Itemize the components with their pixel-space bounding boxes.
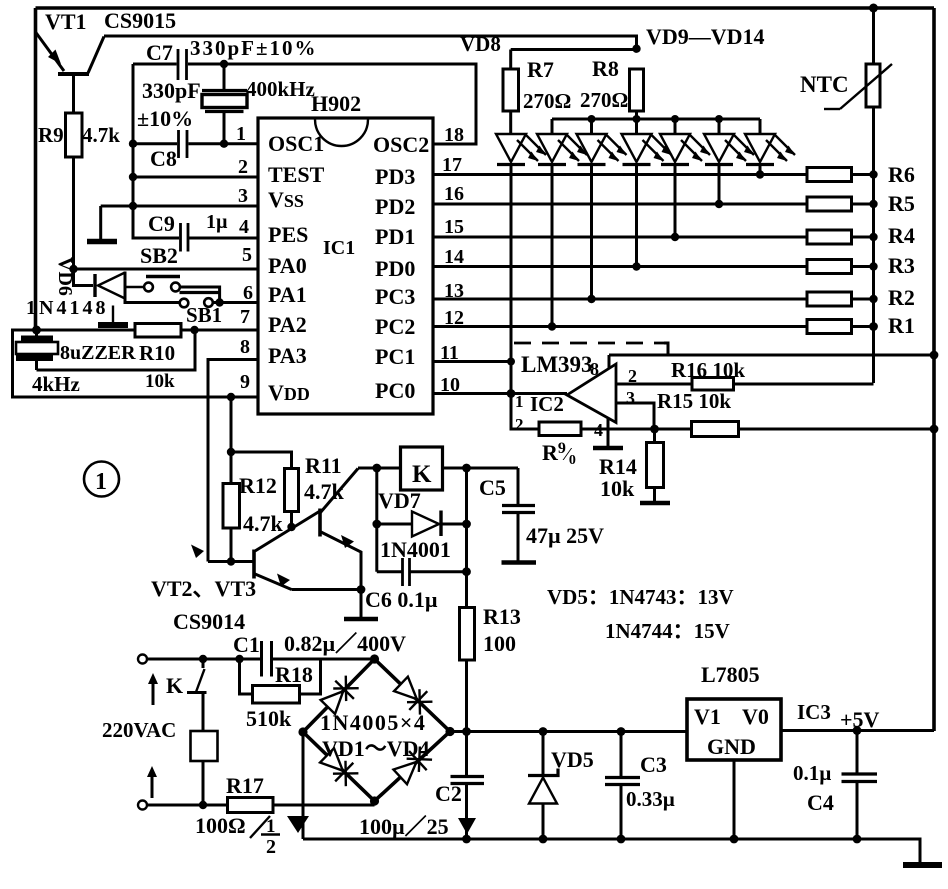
wire ground rail [303,839,920,863]
capacitor C6 0.1u [377,558,467,586]
LED VD11 [622,119,672,271]
svg-text:C9: C9 [148,211,175,236]
svg-text:V0: V0 [742,704,769,729]
svg-text:510k: 510k [246,706,292,731]
svg-text:C6 0.1µ: C6 0.1µ [365,587,438,612]
svg-text:R7: R7 [527,57,554,82]
svg-text:2: 2 [238,156,248,178]
svg-text:1µ: 1µ [206,211,228,233]
svg-text:PA3: PA3 [268,343,307,368]
svg-text:R12: R12 [239,473,277,498]
node left border/buzzer [32,326,41,335]
node R10 right [190,326,198,334]
wire pin8 PA3 to VT2 base [208,360,258,562]
svg-text:270Ω: 270Ω [580,88,628,112]
wire pin7 PA2 with R10 [37,329,136,332]
svg-text:PA0: PA0 [268,253,307,278]
svg-text:R10: R10 [139,341,175,365]
svg-text:10: 10 [440,374,460,396]
wire R7 top [511,48,637,51]
svg-text:+5V: +5V [840,707,880,732]
wire right border +5V [932,8,936,731]
svg-text:2: 2 [266,836,276,858]
svg-text:VD6: VD6 [54,257,76,296]
svg-text:NTC: NTC [800,72,849,97]
wire R9 to pin5 [72,157,75,269]
svg-text:VT2、VT3: VT2、VT3 [151,576,256,601]
svg-text:VDD: VDD [268,380,310,405]
resistor R2 [807,292,852,306]
node pin9/R12 column [227,393,235,401]
svg-text:PA1: PA1 [268,282,307,307]
capacitor C3 0.33u [605,732,640,840]
wire pin13 PC3 [433,298,807,301]
wire pin6 PA1 [213,301,258,304]
svg-text:R15 10k: R15 10k [657,389,731,413]
ground main [903,862,942,868]
svg-text:R6: R6 [888,162,915,187]
wire OSC2 loop top [133,63,177,66]
svg-text:4.7k: 4.7k [304,479,345,504]
svg-text:14: 14 [444,246,464,268]
wire pin3 VSS [101,205,258,208]
wire IC2 pin2 input / R16 [616,383,692,386]
svg-text:100µ／25: 100µ／25 [359,814,449,839]
svg-text:K: K [166,673,183,698]
svg-text:330pF±10%: 330pF±10% [190,36,318,60]
svg-text:CS9015: CS9015 [104,8,176,33]
resistor R13 100 [460,608,475,661]
resistor R4 [807,230,852,244]
svg-text:1N4148: 1N4148 [26,297,108,319]
arrow AC bottom [151,773,154,798]
resistor R% [539,422,581,436]
svg-text:11: 11 [440,342,459,364]
svg-text:330pF: 330pF [142,78,201,103]
svg-text:R18: R18 [275,662,313,687]
transistor VT2 [254,511,361,590]
diode VD2 top-right [392,675,435,718]
IC1 H902 [258,118,433,414]
resistor R3 [807,260,852,274]
svg-text:C4: C4 [807,790,834,815]
wire L7805 GND pin [733,760,736,839]
resistor R8 270 [630,69,644,111]
ground VSS [87,206,117,242]
svg-text:PC2: PC2 [375,314,415,339]
node pin11 corner [507,358,515,366]
svg-text:SB1: SB1 [186,303,222,327]
wire VDD branch to R11/R12 [230,397,233,452]
crystal 400kHz [202,64,247,144]
svg-text:R17: R17 [226,773,264,798]
node R9/pin5 [69,265,77,273]
svg-text:C8: C8 [150,146,177,171]
capacitor C2 100u [451,732,485,840]
pushbutton SB1 [180,293,220,308]
wire +5V output [781,729,934,732]
wire IC2 pin4 [607,418,610,448]
svg-text:R16 10k: R16 10k [671,358,745,382]
LED VD10 [577,119,627,303]
wire VD7 left column [375,468,378,572]
thermistor NTC [824,64,892,109]
wire pin15 PD1 [433,236,807,239]
svg-text:OSC2: OSC2 [373,132,429,157]
wire pin2 TEST [133,176,258,179]
wire buzzer bottom to R10 right [37,330,196,370]
wire K right [443,467,519,470]
svg-text:12: 12 [444,307,464,329]
svg-text:R3: R3 [888,253,915,278]
op-amp IC2 LM393 dashed outline [514,342,664,345]
svg-text:GND: GND [707,734,756,759]
wire plus rail [450,730,687,733]
resistor R9 [66,113,83,157]
svg-text:1N4001: 1N4001 [380,537,451,562]
svg-text:CS9014: CS9014 [173,609,245,634]
wire IC2 pin3 input [616,403,654,429]
node NTC top junction [869,4,878,13]
svg-text:4.7k: 4.7k [243,511,284,536]
svg-text:3: 3 [238,185,248,207]
wire pin9 VDD outer loop [13,330,259,397]
LED VD8 [496,111,546,394]
svg-text:PD0: PD0 [375,256,415,281]
svg-text:IC3: IC3 [797,700,831,724]
svg-text:270Ω: 270Ω [523,89,571,113]
svg-text:2: 2 [628,366,637,386]
resistor R12 4.7k [230,452,233,484]
wire VT1 collector line [104,36,637,49]
svg-text:PC1: PC1 [375,344,415,369]
svg-text:IC1: IC1 [323,237,355,259]
wire top +5V border [36,6,935,10]
svg-text:R13: R13 [483,604,521,629]
svg-text:1N4744：15V: 1N4744：15V [605,619,730,643]
svg-text:8: 8 [590,359,599,379]
svg-text:16: 16 [444,183,464,205]
wire bridge minus column [302,732,305,839]
wire VT2 base [208,560,254,563]
svg-text:VD5：1N4743：13V: VD5：1N4743：13V [547,585,734,609]
diode VD7 1N4001 [377,511,467,537]
wire pin10 PC0 / IC2 output [433,392,567,395]
wire pin1 OSC1 [133,142,177,145]
svg-text:VD8: VD8 [460,32,501,56]
svg-text:C3: C3 [640,752,667,777]
svg-text:VD7: VD7 [378,488,421,513]
svg-text:PES: PES [268,222,308,247]
resistor R11 4.7k [285,469,299,512]
regulator IC3 L7805 [687,699,781,760]
resistor R18 510k loop [240,659,321,703]
svg-text:PD3: PD3 [375,164,415,189]
svg-text:5: 5 [242,244,252,266]
wire relay rail [358,467,401,470]
node crystal top [220,60,228,68]
capacitor C8 330pF [179,130,188,158]
capacitor C9 1u [181,223,189,252]
svg-text:R1: R1 [888,313,915,338]
svg-text:4: 4 [239,216,249,238]
wire pin12 PC2 [433,325,807,328]
diode VD3 bottom-left [318,746,361,789]
bridge rectifier VD1-VD4 [298,654,454,805]
svg-text:VD9—VD14: VD9—VD14 [646,24,765,49]
diode VD6 1N4148 [74,269,181,303]
wire AC top [147,658,260,661]
transistor VT3 [320,469,365,620]
svg-text:PD2: PD2 [375,194,415,219]
svg-text:R9: R9 [38,123,64,147]
capacitor C7 330pF [178,49,187,80]
svg-text:8: 8 [240,336,250,358]
wire pin14 PD0 [433,265,807,268]
svg-text:10k: 10k [145,371,175,392]
svg-text:C7: C7 [146,40,173,65]
svg-text:47µ 25V: 47µ 25V [526,523,604,548]
svg-text:R11: R11 [305,453,342,478]
resistor R10 [135,324,181,338]
arrow AC top [152,680,155,705]
svg-text:C1: C1 [233,632,260,657]
svg-text:R2: R2 [888,285,915,310]
svg-text:3: 3 [626,388,635,408]
svg-text:15: 15 [444,216,464,238]
svg-text:400kHz: 400kHz [246,77,315,101]
buzzer 4kHz [16,330,58,370]
wire pin11 PC1 [433,360,511,363]
svg-text:C2: C2 [435,781,462,806]
resistor R15 10k [692,422,739,437]
wire NTC column [872,8,875,64]
annotation arrow [191,545,204,559]
diode VD1 top-left [319,673,362,716]
svg-text:PC3: PC3 [375,284,415,309]
diode VD4 bottom-right [391,744,434,787]
svg-text:OSC1: OSC1 [268,131,324,156]
LED VD13 [704,119,754,208]
svg-text:R4: R4 [888,223,915,248]
svg-text:100: 100 [483,631,516,656]
svg-text:TEST: TEST [268,162,325,187]
wire AC bottom [147,804,228,807]
wire R% feedback [511,394,539,430]
load box [191,731,218,761]
svg-text:1: 1 [515,392,524,411]
resistor R1 [807,320,852,334]
terminal AC bottom [138,801,147,810]
svg-text:1: 1 [95,469,107,495]
svg-text:PC0: PC0 [375,378,415,403]
svg-text:IC2: IC2 [530,392,564,416]
svg-text:4: 4 [594,420,603,440]
svg-text:LM393: LM393 [521,352,593,377]
svg-text:4kHz: 4kHz [32,372,80,396]
svg-text:9: 9 [240,371,250,393]
svg-text:K: K [412,461,432,488]
node crystal/pin1 [220,140,228,148]
svg-text:VD1～VD4: VD1～VD4 [322,736,430,761]
capacitor C1 0.82u [262,641,272,677]
svg-text:10k: 10k [600,476,635,501]
svg-text:PD1: PD1 [375,224,415,249]
svg-text:4.7k: 4.7k [82,123,120,147]
switch K contact [187,659,207,731]
svg-text:R8: R8 [592,56,619,81]
svg-text:PA2: PA2 [268,312,307,337]
node pin10/output [507,389,516,398]
svg-text:C5: C5 [479,475,506,500]
svg-text:17: 17 [442,154,462,176]
svg-text:V1: V1 [694,704,721,729]
zener VD5 [528,732,558,840]
ground VT3 emitter [344,617,378,622]
svg-text:±10%: ±10% [137,106,193,131]
svg-text:2: 2 [515,415,524,434]
wire pin16 PD2 [433,203,807,206]
terminal AC top [138,655,147,664]
capacitor C4 0.1u [842,731,878,840]
op-amp IC2 triangle [567,364,616,423]
node pin1/C7 column [129,140,137,148]
wire left border [34,8,38,330]
resistor R17 100ohm [228,798,274,813]
wire IC2 pin8 V+ [608,355,611,368]
svg-text:8uZZER: 8uZZER [60,342,136,364]
svg-text:13: 13 [444,280,464,302]
wire C6/R13 column [465,468,468,608]
svg-text:0.33µ: 0.33µ [626,787,675,811]
node SB2/pin6 [215,298,223,306]
svg-text:VSS: VSS [268,187,304,212]
ground R14 [640,501,670,506]
svg-text:100Ω: 100Ω [195,813,246,838]
svg-text:R5: R5 [888,191,915,216]
LED VD12 [660,119,710,241]
ground IC2 pin4 [593,446,623,451]
svg-text:H902: H902 [311,91,361,116]
svg-text:0.82µ／400V: 0.82µ／400V [284,631,406,656]
svg-text:0.1µ: 0.1µ [793,761,831,785]
transistor VT1 [36,32,105,113]
wire pin4 PES [188,237,258,240]
capacitor C5 47u [502,468,537,563]
svg-text:SB2: SB2 [140,243,178,268]
resistor R14 10k [653,429,656,443]
svg-text:VT1: VT1 [45,9,87,34]
svg-text:L7805: L7805 [701,662,760,687]
svg-text:1: 1 [236,123,246,145]
ground SB1 [98,306,128,326]
wire bridge bottom stub [373,801,376,805]
pushbutton SB2 [125,277,220,303]
wire pin5 PA0 [74,268,259,271]
figure number 1 [84,462,119,497]
wire C7 column [133,64,179,238]
svg-text:1N4005×4: 1N4005×4 [320,710,426,735]
LED VD14 [745,119,795,179]
resistor R6 [807,168,852,182]
relay K coil [401,447,443,490]
resistor R7 270 [503,69,519,111]
svg-text:18: 18 [444,124,464,146]
svg-text:6: 6 [243,282,253,304]
wire VD9-VD14 anode rail [552,118,760,121]
LED VD9 [537,119,587,331]
wire pin17 PD3 [433,173,807,176]
svg-text:7: 7 [240,306,250,328]
resistor R5 [807,197,852,211]
svg-text:220VAC: 220VAC [102,718,176,742]
svg-text:VD5: VD5 [551,747,594,772]
